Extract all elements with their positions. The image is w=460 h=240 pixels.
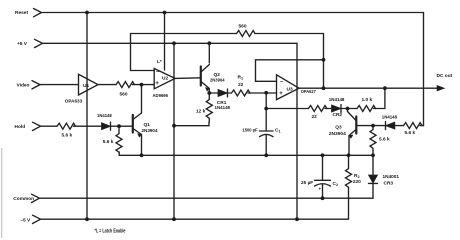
node -5V rail — [41, 218, 349, 220]
svg-text:U1: U1 — [83, 83, 89, 89]
svg-text:C1: C1 — [275, 128, 281, 134]
svg-text:1N4148: 1N4148 — [97, 113, 112, 119]
svg-text:+: + — [279, 91, 283, 97]
svg-text:2N3904: 2N3904 — [329, 131, 346, 137]
connector Hold — [41, 125, 58, 127]
svg-text:–5 V: –5 V — [20, 217, 31, 223]
svg-text:Video: Video — [17, 83, 30, 89]
svg-text:5.6 k: 5.6 k — [103, 139, 114, 145]
wire 1.0k up to DC out — [374, 88, 385, 108]
svg-text:Q2: Q2 — [214, 72, 221, 78]
diode CR1 — [218, 90, 228, 97]
resistor 5.6k hold series — [57, 123, 76, 129]
connector +5V chevron — [35, 39, 43, 47]
op-amp U1 — [79, 74, 99, 95]
wire 5.6k to diode — [74, 125, 102, 127]
wire 560 to U2 plus — [133, 84, 155, 86]
wire Reset to -5V vertical x=87 — [86, 13, 88, 220]
resistor 560 feedback — [237, 31, 256, 37]
wire Q3 base to node — [356, 125, 373, 127]
svg-text:U3: U3 — [287, 87, 293, 93]
resistor 5.6k shunt — [116, 126, 122, 155]
resistor 22 — [308, 106, 327, 112]
wire U1 output — [98, 84, 116, 86]
scan artifact left edge — [1, 148, 2, 238]
svg-text:1N4148: 1N4148 — [329, 97, 345, 103]
resistor 560 series — [116, 82, 135, 88]
op-amp U3 — [277, 75, 300, 100]
svg-text:+: + — [319, 187, 322, 192]
capacitor C1 — [265, 109, 267, 132]
svg-text:*L = Latch Enable: *L = Latch Enable — [95, 229, 126, 235]
svg-text:−: − — [156, 69, 159, 75]
svg-text:U2: U2 — [162, 75, 168, 81]
wire 560 feedback top rail — [131, 34, 324, 89]
svg-text:560: 560 — [120, 92, 128, 98]
wire 12k bottom to x=174 — [174, 122, 209, 126]
svg-text:R2: R2 — [354, 173, 360, 179]
svg-text:AD9696: AD9696 — [153, 93, 169, 99]
svg-text:Q3: Q3 — [335, 125, 342, 131]
svg-text:CR2: CR2 — [333, 112, 343, 118]
svg-text:12 k: 12 k — [196, 109, 206, 115]
transistor Q2 — [200, 67, 202, 86]
svg-text:C2: C2 — [333, 181, 339, 187]
capacitor C2 — [322, 155, 324, 180]
svg-text:−: − — [280, 79, 283, 85]
wire +5V right drop x=297 — [296, 43, 298, 219]
diode CR3 1N4001 — [372, 155, 374, 175]
svg-text:25 µF: 25 µF — [301, 180, 313, 186]
svg-text:+: + — [155, 81, 159, 87]
resistor 1.0k — [357, 106, 376, 112]
wire +5V to Q2 collector — [208, 43, 210, 63]
arrow DC out — [437, 85, 445, 91]
resistor R1 22 — [228, 90, 251, 96]
svg-text:1N4148: 1N4148 — [382, 115, 397, 121]
wire Q1 collector up to U2 plus node — [141, 85, 143, 113]
connector -5V chevron — [33, 215, 41, 223]
wire node line y=108.5 — [266, 108, 308, 110]
diode 1N4148 hold — [102, 123, 111, 130]
svg-text:Reset: Reset — [15, 10, 28, 16]
svg-text:Q1: Q1 — [144, 122, 151, 128]
wire Reset to U2 latch x=164.5 — [164, 13, 166, 71]
wire diode to Q1 base — [111, 125, 133, 127]
wire CR2a anode — [347, 109, 349, 112]
svg-text:1.0 k: 1.0 k — [362, 97, 373, 103]
wire +5V through U2 to -5V x=174 — [173, 43, 175, 219]
connector Video chevron — [32, 81, 40, 89]
svg-text:5.6 k: 5.6 k — [379, 137, 390, 143]
svg-text:1N4148: 1N4148 — [215, 105, 231, 111]
resistor R2 220 — [346, 155, 352, 219]
wire U3 plus node vertical — [265, 93, 267, 109]
svg-text:5.6 k: 5.6 k — [62, 133, 73, 139]
svg-text:1500 pF: 1500 pF — [243, 128, 258, 134]
svg-text:R1: R1 — [238, 75, 244, 81]
svg-text:+5 V: +5 V — [17, 41, 28, 47]
wire U2 minus input — [131, 70, 155, 72]
svg-text:L*: L* — [157, 59, 162, 65]
wire 22 to CR2 — [325, 108, 332, 110]
diode 1N4148 reset (points left) — [373, 125, 386, 127]
svg-text:1N4001: 1N4001 — [383, 174, 400, 180]
wire R1 to U3 plus node — [248, 92, 277, 94]
wire 5.6k to reset drop — [420, 125, 424, 127]
wire Reset right drop x=423.5 — [423, 13, 425, 126]
svg-text:OPA633: OPA633 — [65, 99, 83, 105]
wire diode to 5.6k — [395, 125, 404, 127]
wire CR2 to node — [341, 108, 357, 110]
node Reset rail — [42, 12, 424, 14]
svg-text:22: 22 — [312, 114, 318, 120]
op-amp U2 — [154, 69, 175, 89]
svg-text:DC out: DC out — [437, 73, 453, 79]
svg-text:5.6 k: 5.6 k — [405, 130, 416, 136]
node Common rail — [40, 197, 374, 199]
wire U3 output to DC out — [299, 87, 438, 89]
resistor 5.6k vertical right — [370, 126, 376, 156]
svg-text:Common: Common — [13, 196, 34, 202]
svg-text:OPA627: OPA627 — [301, 89, 316, 95]
resistor 5.6k horizontal — [404, 123, 423, 129]
connector Reset chevron — [34, 9, 42, 17]
node Video input — [40, 84, 79, 86]
svg-text:560: 560 — [239, 24, 247, 30]
svg-text:2N3904: 2N3904 — [142, 128, 158, 134]
transistor Q1 — [132, 115, 134, 133]
transistor Q3 — [355, 117, 357, 134]
svg-text:220: 220 — [353, 179, 361, 185]
wire U2 output to Q2 base — [175, 77, 200, 80]
connector Common chevron — [32, 194, 40, 202]
diode CR2 — [332, 105, 342, 112]
node bottom rail — [119, 154, 373, 156]
resistor 12k — [206, 93, 212, 122]
svg-text:Hold: Hold — [15, 124, 26, 130]
svg-text:CR3: CR3 — [384, 181, 394, 187]
svg-text:2N3904: 2N3904 — [210, 78, 225, 84]
node +5V rail — [43, 42, 298, 44]
wire U3 feedback — [256, 60, 324, 82]
svg-text:22: 22 — [238, 82, 244, 88]
wire Q2 emitter node — [209, 92, 218, 94]
